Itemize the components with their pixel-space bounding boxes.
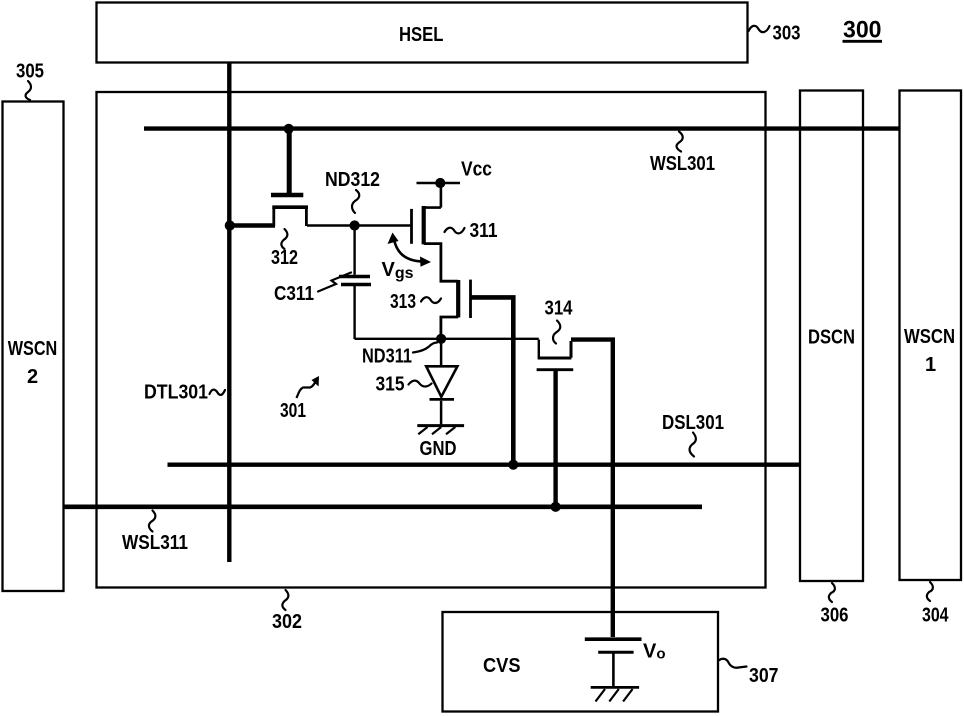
svg-text:311: 311 <box>470 220 498 242</box>
svg-text:WSCN: WSCN <box>8 338 58 360</box>
svg-text:C311: C311 <box>274 283 314 305</box>
svg-text:307: 307 <box>749 665 779 687</box>
svg-text:ND311: ND311 <box>362 346 412 368</box>
svg-text:301: 301 <box>280 400 306 422</box>
svg-text:Vcc: Vcc <box>461 159 492 181</box>
svg-text:315: 315 <box>376 374 405 396</box>
svg-text:WSL301: WSL301 <box>650 153 715 175</box>
svg-text:314: 314 <box>545 298 574 320</box>
svg-text:DSL301: DSL301 <box>662 412 724 434</box>
svg-text:CVS: CVS <box>483 655 521 677</box>
svg-text:2: 2 <box>27 366 38 388</box>
svg-text:312: 312 <box>271 247 298 269</box>
svg-text:300: 300 <box>843 17 882 44</box>
svg-text:GND: GND <box>420 438 457 460</box>
svg-text:DSCN: DSCN <box>808 327 855 349</box>
svg-text:DTL301: DTL301 <box>144 382 208 404</box>
svg-text:306: 306 <box>821 605 849 627</box>
svg-text:313: 313 <box>390 291 416 313</box>
svg-text:304: 304 <box>922 605 949 627</box>
svg-text:303: 303 <box>773 23 801 45</box>
svg-text:302: 302 <box>272 611 302 633</box>
svg-text:HSEL: HSEL <box>399 24 444 46</box>
svg-text:1: 1 <box>925 354 936 376</box>
svg-text:WSCN: WSCN <box>904 326 955 348</box>
svg-text:ND312: ND312 <box>325 169 380 191</box>
svg-text:305: 305 <box>16 61 44 83</box>
svg-text:WSL311: WSL311 <box>122 532 188 554</box>
